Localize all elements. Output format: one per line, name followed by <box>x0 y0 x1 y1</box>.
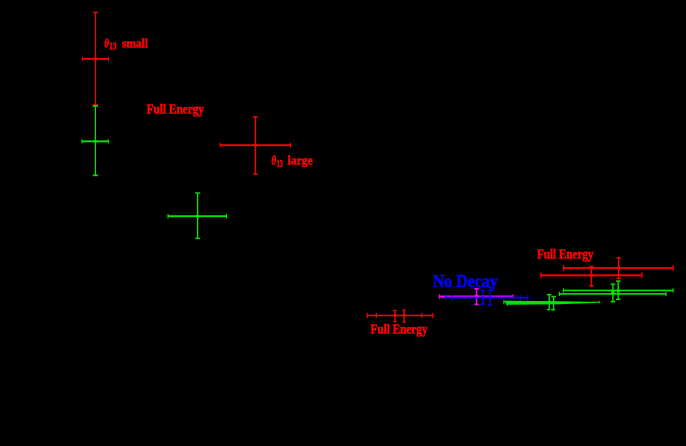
svg-text:13: 13 <box>109 42 116 53</box>
red pair C markers <box>393 314 396 317</box>
green data point A vertical error bar <box>93 106 98 175</box>
green cluster 2 vertical error bars <box>611 281 621 302</box>
magenta marker <box>474 294 478 298</box>
red point R2 (upper right group) <box>564 265 674 271</box>
red data point A marker <box>94 57 97 60</box>
green cluster 2 markers <box>611 291 615 295</box>
green cluster 1 caps <box>504 300 599 306</box>
red point R1 marker <box>590 273 594 277</box>
svg-text:small: small <box>122 35 148 50</box>
magenta point horizontal error bar <box>439 294 513 298</box>
green cluster 1 markers <box>547 301 551 305</box>
red data point B marker <box>254 143 258 147</box>
green cluster 1 vertical error bars <box>547 295 556 310</box>
svg-text:Full Energy: Full Energy <box>371 322 428 337</box>
blue vertical error bars <box>481 287 493 305</box>
blue markers <box>481 296 484 299</box>
green cluster 2 horizontal error bars <box>559 288 673 296</box>
green data point B <box>168 193 227 238</box>
red pair C vertical error bars <box>393 310 406 322</box>
red point R2 marker <box>617 266 621 270</box>
green cluster 1 wedge (overlapping horizontal error bars) <box>504 301 599 305</box>
red point R1 (lower right group) <box>541 272 642 278</box>
blue horizontal error bars <box>446 295 528 300</box>
red pair C horizontal error bars <box>367 313 433 318</box>
svg-text:Full Energy: Full Energy <box>147 101 205 116</box>
svg-text:13: 13 <box>277 159 283 170</box>
green data point B marker <box>196 215 199 218</box>
svg-text:Full Energy: Full Energy <box>537 246 594 261</box>
red data point A horizontal error bar <box>82 57 108 61</box>
svg-text:large: large <box>288 153 313 168</box>
magenta point vertical error bar <box>474 289 478 305</box>
green data point A marker <box>94 140 97 143</box>
red data point A (theta13 small), vertical error bar <box>93 12 98 105</box>
red data point B (theta13 large) <box>220 117 290 174</box>
green data point A horizontal error bar <box>82 139 108 143</box>
